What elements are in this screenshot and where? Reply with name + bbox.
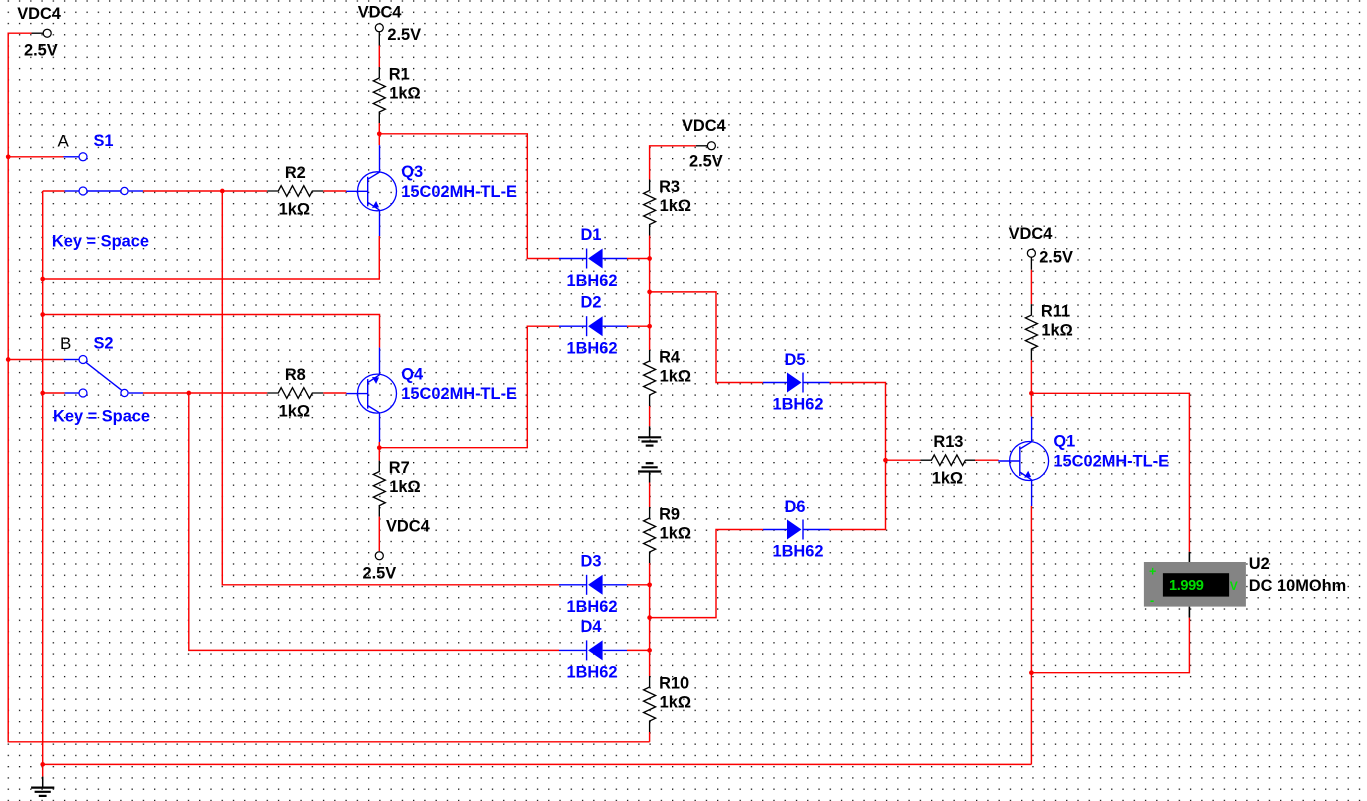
svg-text:1kΩ: 1kΩ	[279, 402, 310, 420]
svg-text:1BH62: 1BH62	[566, 598, 617, 616]
junction S2 throw rail	[40, 391, 45, 396]
junction Q4 feed rail	[40, 312, 45, 317]
svg-text:1kΩ: 1kΩ	[660, 525, 691, 543]
terminal S2 pole	[121, 389, 128, 396]
resistor R8	[267, 388, 323, 399]
svg-text:2.5V: 2.5V	[689, 153, 723, 171]
wire S1 node down to D3	[222, 191, 559, 585]
svg-text:1kΩ: 1kΩ	[660, 368, 691, 386]
svg-text:1kΩ: 1kΩ	[932, 470, 963, 488]
svg-text:R1: R1	[389, 66, 410, 84]
svg-text:1kΩ: 1kΩ	[279, 200, 310, 218]
junction S1 pole node	[220, 189, 225, 194]
svg-text:1BH62: 1BH62	[566, 272, 617, 290]
wire R13 to Q1 base	[975, 459, 999, 461]
svg-text:U2: U2	[1249, 555, 1270, 573]
svg-text:D3: D3	[581, 552, 602, 570]
wire tap to R13	[886, 459, 921, 461]
svg-text:S2: S2	[94, 335, 114, 353]
svg-text:Key = Space: Key = Space	[52, 233, 149, 251]
svg-text:B: B	[60, 334, 71, 353]
wire R1 to collector node	[378, 123, 380, 134]
wire Q4 to node	[378, 442, 380, 448]
wire rail to S2 lower throw	[43, 392, 65, 394]
resistor R4	[644, 350, 656, 406]
wire D2 to node	[627, 325, 650, 327]
terminal S1 pole	[121, 187, 128, 194]
wire D1 to R3 node	[627, 258, 650, 260]
transistor Q1 (15C02MH-TL-E)	[998, 442, 1048, 481]
wire R8 to Q4 base	[323, 392, 346, 394]
wire VDC4-TL down left rail and bottom to R10	[8, 33, 649, 742]
diode D5 (1BH62, pointing right)	[763, 373, 830, 393]
wire S1 pole to node	[143, 190, 222, 192]
junction Q4 collector node	[377, 445, 382, 450]
transistor Q3 (15C02MH-TL-E)	[346, 172, 396, 211]
svg-text:D2: D2	[581, 294, 602, 312]
resistor R9	[644, 507, 656, 563]
resistor R11	[1025, 304, 1037, 360]
svg-text:R10: R10	[659, 675, 689, 693]
svg-text:1kΩ: 1kΩ	[389, 85, 420, 103]
wire VDC4 to R3	[650, 146, 696, 180]
svg-text:1BH62: 1BH62	[772, 396, 823, 414]
svg-text:A: A	[58, 131, 70, 150]
junction S2 pole node	[186, 391, 191, 396]
svg-text:R3: R3	[659, 178, 680, 196]
svg-text:2.5V: 2.5V	[363, 565, 397, 583]
svg-text:1kΩ: 1kΩ	[389, 478, 420, 496]
wire D3 to node	[627, 584, 650, 586]
wire left rail to ground	[42, 191, 44, 777]
diode D6 (1BH62, pointing right)	[763, 520, 830, 540]
wire D3 node to branch node	[649, 585, 651, 618]
ground (mid, above R9, inverted)	[638, 463, 661, 482]
wire R9 to D3 node	[649, 563, 651, 585]
svg-text:VDC4: VDC4	[17, 5, 62, 23]
wire Q1 collector lead	[1030, 393, 1032, 416]
svg-text:15C02MH-TL-E: 15C02MH-TL-E	[1053, 453, 1169, 471]
wire node to R8	[189, 392, 267, 394]
wire Q4 collector lead	[379, 413, 381, 442]
terminal pin VDC4 R3	[707, 142, 715, 150]
terminal pin VDC4 bottom	[375, 552, 383, 560]
svg-text:15C02MH-TL-E: 15C02MH-TL-E	[401, 385, 517, 403]
svg-text:1BH62: 1BH62	[772, 543, 823, 561]
svg-text:V: V	[1230, 579, 1238, 593]
diode D4 (1BH62, pointing left)	[559, 640, 627, 660]
wire Q4 node to D2	[379, 326, 559, 448]
wire D2 node to R4	[649, 326, 651, 350]
wire branch node to D4 node	[649, 618, 651, 651]
wire D4 node to R10	[649, 650, 651, 676]
svg-text:-: -	[1150, 594, 1154, 608]
wire D1 node to D5 node	[649, 259, 651, 292]
wire D6 to lower node	[650, 530, 763, 618]
wire node to R7	[378, 448, 380, 461]
svg-text:R4: R4	[659, 349, 681, 367]
junction Q3 emitter rail	[40, 277, 45, 282]
wire R10 to bottom	[649, 732, 651, 742]
wire collector node to D1	[379, 134, 559, 259]
resistor R2	[267, 186, 323, 197]
svg-text:D5: D5	[785, 351, 806, 369]
diode D3 (1BH62, pointing left)	[559, 575, 627, 595]
svg-text:VDC4: VDC4	[358, 3, 403, 21]
junction D3 node	[647, 582, 652, 587]
svg-text:1.999: 1.999	[1169, 578, 1204, 594]
svg-text:D1: D1	[581, 226, 602, 244]
svg-text:2.5V: 2.5V	[24, 42, 58, 60]
junction D2 node	[647, 324, 652, 329]
wire node to D5	[650, 292, 763, 383]
junction meter return	[1029, 670, 1034, 675]
terminal S1 throw A	[79, 153, 87, 161]
svg-text:R13: R13	[933, 433, 963, 451]
wire Q1 emitter lead	[1031, 480, 1033, 506]
junction D6 branch node	[647, 615, 652, 620]
junction Q1 collector node	[1029, 391, 1034, 396]
svg-text:R7: R7	[389, 459, 410, 477]
junction D5 branch node	[647, 290, 652, 295]
junction D4 node	[647, 648, 652, 653]
svg-text:1kΩ: 1kΩ	[660, 197, 691, 215]
wire R2 to Q3 base	[323, 190, 346, 192]
wire D4 to node	[627, 649, 650, 651]
svg-text:S1: S1	[94, 132, 114, 150]
terminal pin VDC4 top	[375, 24, 383, 32]
wire Q1 node to voltmeter +	[1031, 393, 1189, 552]
diode D1 (1BH62, pointing left)	[559, 249, 627, 269]
transistor Q4 (15C02MH-TL-E)	[346, 374, 396, 413]
svg-text:VDC4: VDC4	[1009, 225, 1054, 243]
svg-text:VDC4: VDC4	[682, 117, 727, 135]
wire R7 to VDC4	[378, 517, 380, 551]
wire VDC4 to R1	[378, 46, 380, 68]
svg-text:+: +	[1149, 564, 1156, 578]
junction node at S1 throw A	[6, 154, 11, 159]
svg-text:R8: R8	[285, 366, 306, 384]
terminal pin VDC4 R11	[1027, 249, 1035, 257]
power terminal VDC4 V4 (feeds R3, 2.5V)	[696, 145, 707, 147]
resistor R1	[373, 67, 385, 123]
svg-text:Q1: Q1	[1053, 433, 1075, 451]
terminal S2 throw lower	[79, 389, 87, 397]
wire VDC4 to R11	[1030, 270, 1032, 304]
wire S2 node down to D4	[189, 393, 559, 650]
wire D5 node to D2 node	[649, 292, 651, 326]
junction Q3 collector node	[377, 131, 382, 136]
wire ground to R9	[649, 483, 651, 508]
svg-text:2.5V: 2.5V	[1039, 249, 1073, 267]
svg-text:VDC4: VDC4	[386, 518, 431, 536]
junction D1 R3 node	[647, 256, 652, 261]
switch S2 (SPDT, Key = Space)	[64, 360, 144, 394]
resistor R13	[920, 455, 976, 466]
junction node at S2 throw B	[6, 357, 11, 362]
wire node to R2	[222, 190, 267, 192]
resistor R7	[373, 461, 385, 517]
svg-text:Key = Space: Key = Space	[53, 408, 150, 426]
svg-text:R11: R11	[1041, 303, 1070, 321]
wire Q3 emitter to rail	[43, 236, 380, 279]
svg-text:R9: R9	[659, 506, 680, 524]
power terminal VDC4 V2 (top, feeds R1, 2.5V)	[378, 32, 380, 46]
wire bottom bus	[43, 763, 1032, 765]
svg-text:Q3: Q3	[401, 163, 423, 181]
svg-text:D4: D4	[581, 618, 603, 636]
wire rail to Q4 emitter	[43, 315, 380, 348]
wire D5 right rail to D6	[830, 383, 886, 530]
power terminal VDC4 V1 (top-left, 2.5V)	[32, 32, 44, 34]
wire S2 pole to node	[143, 392, 189, 394]
svg-text:1kΩ: 1kΩ	[660, 694, 691, 712]
wire voltmeter - to emitter	[1031, 618, 1189, 673]
power terminal VDC4 V5 (feeds R11, 2.5V)	[1030, 257, 1032, 269]
svg-text:1kΩ: 1kΩ	[1041, 322, 1072, 340]
wire R11 to Q1 node	[1030, 360, 1032, 393]
svg-text:R2: R2	[285, 164, 306, 182]
svg-text:1BH62: 1BH62	[566, 664, 617, 682]
wire R4 to ground	[649, 406, 651, 426]
terminal pin VDC4 top-left	[43, 29, 51, 37]
svg-text:DC 10MOhm: DC 10MOhm	[1249, 577, 1346, 595]
junction bottom bus	[40, 762, 45, 767]
wire Q3 emitter	[379, 210, 381, 236]
resistor R10	[644, 676, 656, 732]
svg-text:2.5V: 2.5V	[387, 26, 421, 44]
svg-text:15C02MH-TL-E: 15C02MH-TL-E	[401, 183, 517, 201]
terminal S1 throw lower	[79, 187, 87, 195]
wire R3 to D1 node	[649, 236, 651, 259]
diode D2 (1BH62, pointing left)	[559, 316, 627, 336]
ground (bottom-left)	[31, 777, 54, 796]
wire rail to S1 lower throw	[43, 190, 65, 192]
resistor R3	[644, 180, 656, 236]
ground (mid, below R4)	[638, 426, 661, 445]
switch S1 (SPDT, Key = Space)	[64, 157, 144, 191]
wire Q3 collector	[378, 134, 380, 145]
wire A to S1 throw	[8, 156, 63, 158]
junction R13 tap	[883, 458, 888, 463]
wire Q1 emitter down to bus	[1030, 506, 1032, 764]
terminal S2 throw B	[79, 356, 87, 364]
wire Q4 emitter lead	[379, 348, 381, 375]
svg-text:1BH62: 1BH62	[566, 340, 617, 358]
svg-text:Q4: Q4	[401, 365, 424, 383]
wire B to S2 throw	[8, 359, 63, 361]
voltmeter U2 (DC 10MOhm, reading 1.999)	[1144, 552, 1246, 618]
svg-text:D6: D6	[785, 498, 806, 516]
